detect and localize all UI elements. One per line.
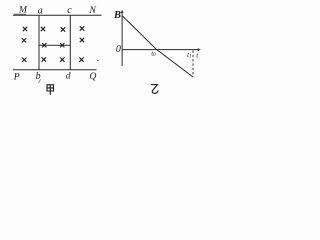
svg-text:d: d (66, 72, 71, 82)
field symbol x row1 col4 (80, 26, 84, 30)
svg-text:M: M (18, 6, 28, 16)
field symbol x row2 col1 (22, 38, 26, 42)
field symbol x row1 col3 (61, 27, 65, 31)
field symbol x row3 col1 (22, 58, 26, 62)
field symbol x row3 col3 (60, 57, 64, 61)
field symbol x row3 col2 (42, 57, 46, 61)
underline artifact below M (14, 13, 26, 15)
wire cd (right side of loop) (69, 15, 71, 70)
speck near Q (97, 60, 98, 61)
svg-text:N: N (89, 6, 97, 16)
boundary line MN (top edge of field region) (13, 14, 102, 16)
stray mark under b (38, 79, 40, 83)
arrowhead of t axis (197, 48, 200, 51)
axis t (horizontal) (122, 49, 199, 51)
svg-text:c: c (67, 5, 72, 16)
dashed line at t1 (192, 51, 194, 77)
svg-text:Q: Q (90, 72, 97, 82)
svg-text:P: P (13, 73, 20, 83)
field symbol x row2 col4 (80, 38, 84, 42)
field symbol x row3 col4 (79, 57, 83, 61)
axis B (vertical) (121, 12, 123, 67)
field symbol x on rung right (60, 43, 64, 47)
field symbol x row1 col1 (23, 27, 27, 31)
arrowhead of B axis (121, 10, 124, 13)
svg-text:t: t (196, 52, 199, 60)
field symbol x row1 col2 (41, 27, 45, 31)
svg-text:t1: t1 (187, 51, 191, 60)
svg-text:B: B (113, 10, 121, 21)
wire ab (left side of loop) (38, 15, 40, 70)
character yi (caption of right figure) (151, 85, 158, 94)
field symbol x on rung left (42, 43, 46, 47)
middle rung wire (39, 44, 70, 46)
svg-text:0: 0 (116, 44, 121, 55)
character jia (caption of left figure) (47, 85, 54, 95)
svg-text:t0: t0 (151, 49, 156, 58)
svg-text:a: a (38, 5, 43, 16)
boundary line PQ (bottom edge of field region) (13, 69, 97, 71)
B-t graph line (123, 16, 194, 77)
